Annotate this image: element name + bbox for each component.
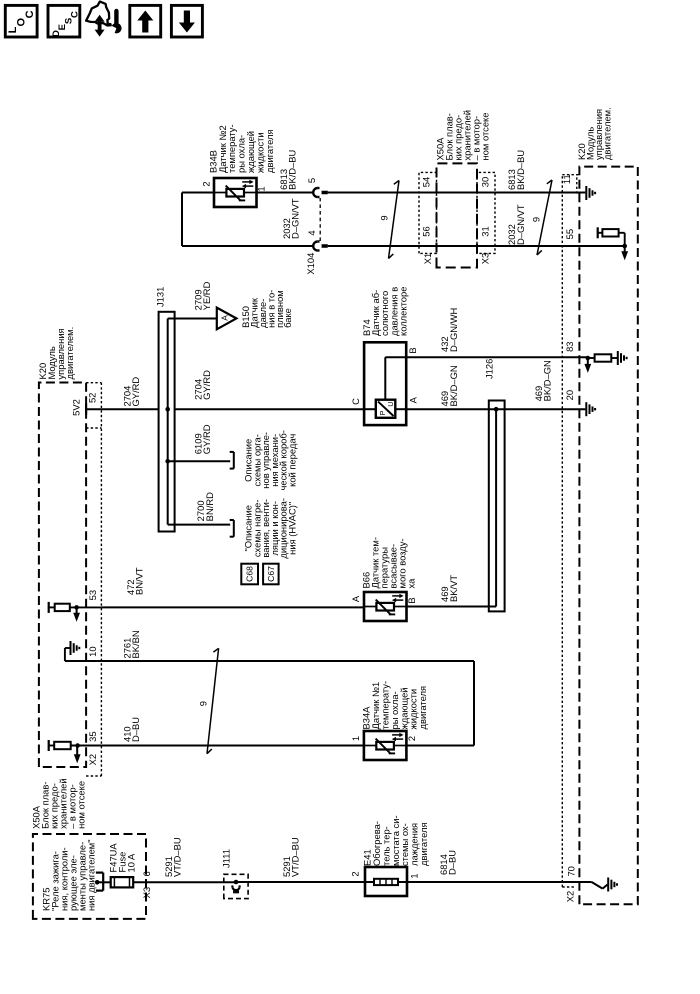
label wire 469 BK/D-GN (b): [533, 360, 553, 401]
label wire 2032 (a): [281, 198, 301, 239]
svg-text:BK/BN: BK/BN: [130, 630, 141, 658]
splice pack J126 label: [483, 359, 494, 379]
svg-text:9: 9: [378, 215, 389, 220]
connector tag C68: [241, 564, 258, 585]
svg-text:BN/RD: BN/RD: [204, 492, 215, 521]
pin 4 (X104): [306, 230, 317, 235]
label wire 6813 (a): [278, 149, 298, 189]
svg-text:BK/D–GN: BK/D–GN: [542, 360, 553, 401]
resistor internal (pin 35 pull-up): [54, 742, 70, 749]
label wire 469 BK/VT: [439, 575, 459, 602]
pin 53: [87, 590, 98, 600]
svg-text:5V2: 5V2: [70, 399, 81, 416]
svg-text:20: 20: [564, 390, 575, 400]
svg-text:C: C: [24, 10, 36, 18]
connector label X3 (lower): [141, 887, 152, 898]
svg-text:U: U: [386, 401, 395, 406]
svg-text:коллекторе: коллекторе: [398, 287, 409, 336]
wire 6109: [168, 460, 231, 462]
wire 2700: [168, 524, 231, 526]
module K20 box (bottom): [579, 167, 637, 905]
pin 10: [87, 646, 98, 656]
terminal tick 5V (pin 35): [48, 740, 50, 751]
pin B (B74): [407, 347, 418, 353]
off-page arrow (pin 83): [584, 358, 591, 373]
description text (HVAC): [243, 498, 298, 559]
svg-text:D–BU: D–BU: [130, 717, 141, 742]
svg-text:YE/RD: YE/RD: [201, 281, 212, 310]
svg-text:X2: X2: [87, 754, 98, 765]
svg-text:70: 70: [566, 866, 577, 876]
wire 2761: [101, 660, 474, 662]
label wire 2704 (a): [122, 377, 142, 407]
label wire 410: [121, 717, 141, 742]
svg-text:J126: J126: [483, 359, 494, 379]
wire 5291 (J111 to E41): [236, 881, 365, 883]
svg-text:83: 83: [564, 341, 575, 351]
wire 472: [101, 606, 364, 608]
svg-text:6: 6: [141, 871, 152, 876]
wire 410: [101, 745, 364, 747]
module K20 label (bottom): [576, 107, 613, 160]
svg-text:53: 53: [87, 590, 98, 600]
svg-text:двигателем.: двигателем.: [64, 327, 75, 380]
svg-text:J111: J111: [220, 849, 231, 868]
splice pack J131: [159, 312, 175, 532]
pin 2 (E41): [349, 871, 360, 876]
resistor internal (pin 53 pull-up): [55, 604, 70, 611]
svg-text:X2: X2: [565, 891, 576, 902]
label wire 2761: [121, 630, 141, 658]
fuse block X50A box (lower): [33, 834, 146, 919]
svg-text:кой передач: кой передач: [287, 434, 298, 487]
pin 6 (X3): [141, 871, 152, 876]
svg-text:30: 30: [479, 177, 490, 187]
svg-text:D–GN/VT: D–GN/VT: [290, 198, 301, 239]
svg-text:X3: X3: [479, 253, 490, 264]
pin 5 (X104): [306, 178, 317, 183]
fuse F47UA: [111, 877, 134, 887]
wire pin53 internal: [49, 606, 102, 608]
label wire 2032 (b): [506, 204, 526, 245]
label wire 472: [125, 567, 145, 595]
svg-text:9: 9: [197, 701, 208, 706]
wire 432: [406, 356, 588, 358]
svg-text:D–GN/WH: D–GN/WH: [448, 308, 459, 352]
junction dot pin 55: [622, 244, 627, 249]
sensor B150 label: [240, 290, 293, 328]
sensor B66 (thermistor): [364, 592, 407, 621]
pin 30: [479, 177, 490, 187]
svg-text:X3: X3: [141, 887, 152, 898]
svg-text:двигателя: двигателя: [417, 686, 428, 730]
svg-text:BK/D–BU: BK/D–BU: [287, 149, 298, 189]
wire pin35 internal: [49, 745, 102, 747]
harness slash 9 (B34B left): [389, 181, 400, 259]
heater E41 label: [362, 815, 429, 866]
wire 2704 (J131 to B74): [175, 408, 365, 410]
wire B34A pin2 return: [406, 661, 474, 746]
svg-text:BK/D–GN: BK/D–GN: [448, 365, 459, 406]
wire 469 (J126 to pin 20): [496, 408, 585, 410]
icon button previous (arrow): [130, 5, 161, 37]
wire 2704 (pin52 to J131): [86, 408, 159, 410]
label wire 5291 (b): [281, 837, 301, 877]
svg-text:GY/RD: GY/RD: [130, 377, 141, 407]
svg-text:10 A: 10 A: [126, 853, 137, 873]
pin A (B74): [408, 396, 419, 403]
connector X3 box: [477, 172, 495, 253]
ground internal (pin 10): [71, 641, 80, 655]
fuse block X50A label (lower): [31, 778, 87, 829]
description text (manual transmission controls): [243, 430, 298, 490]
pin B (B66): [406, 597, 417, 603]
junction dot relay output: [95, 880, 100, 885]
svg-text:X104: X104: [305, 253, 316, 275]
sensor B34B label: [207, 124, 274, 173]
svg-text:VT/D–BU: VT/D–BU: [172, 837, 183, 877]
connector X1 box: [419, 172, 437, 253]
svg-text:P: P: [378, 410, 387, 415]
pin 2 (B34A): [406, 736, 417, 741]
label wire 6813 (b): [506, 150, 526, 190]
label wire 469 BK/D-GN (a): [439, 365, 459, 406]
svg-text:ния (HVAC)": ния (HVAC)": [287, 502, 298, 555]
svg-text:11: 11: [561, 174, 572, 184]
sensor B74 transducer: [364, 357, 406, 418]
connector label X1: [422, 253, 433, 264]
svg-text:D–BU: D–BU: [447, 850, 458, 875]
svg-text:C: C: [70, 11, 81, 18]
relay KR75 contact terminal: [96, 873, 103, 891]
icon button LOC: [5, 5, 37, 37]
svg-text:1: 1: [255, 186, 266, 191]
svg-text:C67: C67: [266, 566, 276, 582]
sensor B150 triangle: [217, 308, 237, 330]
terminal tick (pin 55 branch): [597, 227, 599, 238]
svg-text:5: 5: [306, 178, 317, 183]
connector X104 pin4: [313, 242, 328, 251]
svg-text:2: 2: [200, 181, 211, 186]
svg-text:A: A: [350, 595, 361, 602]
connector label X3: [479, 253, 490, 264]
pin 83: [564, 341, 575, 351]
junction dot J126: [494, 407, 499, 412]
connector X104 link: [319, 198, 321, 241]
svg-text:A: A: [220, 315, 230, 321]
wire pin83 branch: [588, 357, 618, 359]
pin 1 (B34A): [350, 736, 361, 741]
harness label 9 (b): [530, 217, 541, 222]
icon vehicle-data with wrench: [86, 2, 122, 37]
harness label 9 (c): [197, 701, 208, 706]
svg-text:двигателя: двигателя: [418, 822, 429, 866]
svg-text:A: A: [408, 396, 419, 403]
resistor internal (pin 55): [602, 229, 618, 236]
junction dot pin 35: [75, 743, 80, 748]
pin C (B74): [350, 398, 361, 405]
sensor B34A label: [361, 681, 428, 730]
connector strip of K20 (bottom): [562, 175, 579, 887]
pin 54: [420, 177, 431, 187]
pin 55: [564, 229, 575, 239]
icon button DESC: [48, 5, 81, 37]
svg-text:BK/D–BU: BK/D–BU: [515, 150, 526, 190]
pin 11: [561, 174, 572, 184]
splice J111 box: [224, 874, 248, 898]
label wire 432: [439, 308, 459, 352]
icon button next (arrow): [171, 5, 202, 37]
pin 20: [564, 390, 575, 400]
fuse F47UA label: [108, 843, 137, 873]
ground internal (pin 70): [608, 878, 617, 892]
svg-text:BK/VT: BK/VT: [448, 575, 459, 602]
pin 70: [566, 866, 577, 876]
connector tag C67: [263, 564, 279, 585]
wire 6813 upper: [257, 192, 314, 194]
label wire 2709: [192, 281, 212, 310]
connector X104 label: [305, 253, 316, 275]
svg-text:двигателя: двигателя: [264, 129, 275, 173]
connector label X2 (top strip): [87, 754, 98, 765]
off-page arrow (pin 53): [73, 607, 80, 621]
svg-text:ния двигателем": ния двигателем": [85, 839, 96, 911]
pin A (B66): [350, 595, 361, 602]
svg-text:B: B: [407, 347, 418, 353]
off-page arrow (pin 35): [74, 746, 81, 764]
pin 52: [87, 393, 98, 403]
label wire 2704 (b): [192, 370, 212, 400]
connector strip of K20 (top): [86, 383, 101, 776]
ground internal (pin 20): [586, 402, 595, 416]
harness slash 9 (B34A): [207, 648, 219, 753]
svg-text:4: 4: [306, 230, 317, 235]
svg-text:C: C: [350, 398, 361, 405]
fuse block X50A label (upper): [435, 110, 491, 161]
svg-text:VT/D–BU: VT/D–BU: [290, 837, 301, 877]
ground internal (pin 83): [618, 351, 627, 365]
svg-text:X1: X1: [422, 253, 433, 264]
svg-text:1: 1: [408, 873, 419, 878]
splice pack J131 label: [154, 287, 165, 307]
label wire 6814: [438, 850, 458, 875]
relay KR75 label: [40, 839, 96, 911]
wire 2032 lower: [328, 245, 625, 247]
svg-text:10: 10: [87, 646, 98, 656]
svg-text:54: 54: [420, 177, 431, 187]
sensor B66 label: [361, 537, 417, 588]
junction dot J131/6109: [165, 459, 170, 464]
svg-text:ном отсеке: ном отсеке: [76, 781, 87, 829]
svg-text:BN/VT: BN/VT: [134, 567, 145, 595]
label wire 5291 (a): [163, 837, 183, 877]
module K20 box (top): [39, 383, 86, 768]
wire relay to fuse: [97, 881, 111, 883]
pin 1 (E41): [408, 873, 419, 878]
svg-text:52: 52: [87, 393, 98, 403]
svg-text:C68: C68: [245, 566, 255, 582]
wire B34B pin2 jog: [182, 193, 313, 247]
terminal tick 5V (pin 53): [48, 602, 50, 613]
svg-text:GY/RD: GY/RD: [201, 370, 212, 400]
terminal tick pin 52: [85, 404, 87, 415]
heater E41: [365, 867, 407, 896]
svg-text:1: 1: [350, 736, 361, 741]
junction dot J131/2704: [165, 407, 170, 412]
sensor B34B (thermistor): [214, 178, 257, 207]
svg-text:35: 35: [87, 731, 98, 741]
junction dot pin 53: [74, 605, 79, 610]
splice J111 connector: [232, 882, 239, 893]
module K20 label (top): [37, 327, 75, 380]
reference bracket (HVAC schema): [230, 520, 234, 537]
label wire 6109: [192, 424, 212, 454]
wire 6813 lower: [328, 192, 586, 194]
resistor internal (pin 83): [595, 354, 612, 361]
svg-text:2: 2: [406, 736, 417, 741]
connector X104 pin5: [313, 188, 328, 197]
wire 5291 (fuse to J111): [133, 881, 236, 883]
svg-text:55: 55: [564, 229, 575, 239]
wire 469 BK/VT: [407, 606, 497, 608]
svg-text:B: B: [406, 597, 417, 603]
pin 1 (B34B): [255, 186, 266, 191]
label wire 2700: [195, 492, 215, 521]
sensor B74 box: [364, 342, 406, 425]
pin 31: [479, 226, 490, 236]
harness slash 9 (B34B right): [537, 180, 552, 255]
node 5V2: [70, 399, 81, 416]
svg-text:баке: баке: [282, 308, 293, 328]
svg-text:D–GN/VT: D–GN/VT: [515, 204, 526, 245]
harness label 9 (a): [378, 215, 389, 220]
svg-text:9: 9: [530, 217, 541, 222]
ground internal (pin 11): [586, 186, 595, 200]
svg-text:ном отсеке: ном отсеке: [480, 113, 491, 161]
svg-text:2: 2: [349, 871, 360, 876]
pin 35: [87, 731, 98, 741]
fuse block X50A body box: [437, 163, 478, 267]
junction dot J111: [234, 880, 239, 885]
svg-text:GY/RD: GY/RD: [201, 424, 212, 454]
pin 56: [420, 226, 431, 236]
off-page arrow (pin 55): [621, 246, 628, 260]
wire pin55 branch: [598, 233, 625, 246]
reference bracket (MT schema): [230, 452, 234, 469]
wire 469 (B74 to J126): [406, 408, 496, 410]
pin 2 (B34B): [200, 181, 211, 186]
wire pin70 internal: [592, 882, 608, 889]
connector label X2 (bottom strip): [565, 891, 576, 902]
svg-text:J131: J131: [154, 287, 165, 307]
wire 2709: [168, 318, 217, 320]
junction dot pin 83: [586, 356, 591, 361]
splice J111 label: [220, 849, 231, 868]
svg-text:31: 31: [479, 226, 490, 236]
sensor B34A (thermistor): [364, 731, 407, 760]
wire pin10 internal: [65, 648, 102, 661]
svg-text:ха: ха: [406, 578, 417, 589]
svg-text:56: 56: [420, 226, 431, 236]
svg-text:двигателем.: двигателем.: [601, 107, 612, 160]
wire 6814: [407, 881, 592, 883]
splice pack J126: [489, 401, 505, 612]
sensor B74 label: [361, 287, 409, 336]
